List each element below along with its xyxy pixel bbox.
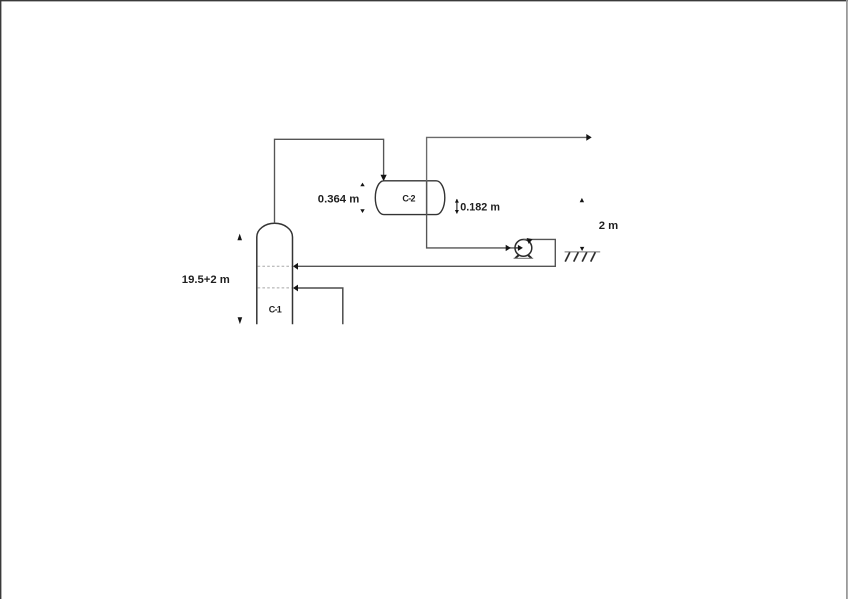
- dimension bar 0.182 m (liquid level): [455, 199, 459, 214]
- wire: overhead vapor pipe from column C-1 top to drum C-2: [275, 139, 387, 223]
- svg-text:C-1: C-1: [269, 305, 282, 315]
- tray dashed line lower (feed nozzle level): [258, 287, 292, 289]
- column C-1 (distillation column, clipped at bottom): [257, 223, 293, 324]
- drum C-2 (horizontal reflux drum): [375, 181, 445, 215]
- dimension arrows for 19.5+2 m (column height): [237, 234, 242, 325]
- svg-text:0.364 m: 0.364 m: [318, 193, 359, 205]
- ground (hatched grade symbol): [565, 252, 601, 262]
- svg-text:0.182 m: 0.182 m: [460, 202, 500, 214]
- svg-text:2 m: 2 m: [599, 220, 618, 232]
- pump P-1 (centrifugal pump circle with base): [514, 240, 534, 259]
- wire: drum bottoms line down and right to pump suction: [427, 215, 516, 252]
- svg-text:C-2: C-2: [402, 194, 415, 204]
- dimension arrows for 0.364 m (drum width): [360, 183, 364, 213]
- wire: feed line into column C-1 lower nozzle, clipped at bottom: [293, 285, 343, 325]
- tray dashed line upper (return nozzle level): [258, 265, 292, 267]
- wire: pump discharge loop returning to column C-1 upper nozzle: [293, 236, 555, 269]
- dimension arrows for 2 m (pump elevation above grade): [580, 198, 585, 251]
- wire: vapor outlet riser through drum to product arrow right: [427, 134, 592, 215]
- svg-text:19.5+2 m: 19.5+2 m: [182, 274, 230, 286]
